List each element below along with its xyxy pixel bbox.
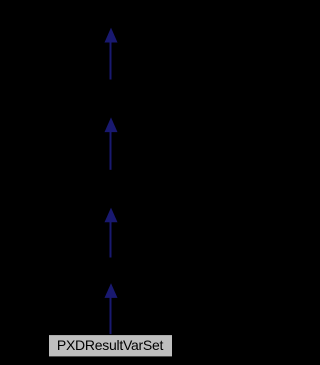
inheritance arrow A1	[105, 28, 118, 80]
class box PXDResultVarSet (highlighted node)	[49, 335, 173, 357]
inheritance arrow A2	[105, 117, 118, 170]
class box VarSet (invisible: black on black)	[42, 258, 179, 283]
class box CompositeProcessingSignalListener (invisible: black on black)	[42, 80, 179, 118]
inheritance arrow A4	[105, 283, 118, 334]
class box BaseVarSet (invisible: black on black)	[42, 170, 179, 207]
svg-text:PXDResultVarSet: PXDResultVarSet	[57, 337, 164, 353]
class box ProcessingSignalListener (invisible: black on black)	[38, 5, 183, 28]
inheritance arrow A3	[105, 208, 118, 258]
